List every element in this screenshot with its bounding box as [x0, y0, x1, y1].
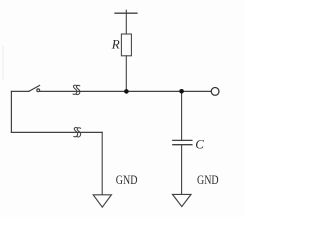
wire bottom horizontal — [11, 131, 102, 133]
svg-text:GND: GND — [197, 173, 219, 187]
ground symbol right — [173, 194, 192, 206]
wire down to left ground — [101, 132, 103, 194]
wire rail to resistor — [125, 13, 127, 34]
junction dot B — [179, 89, 184, 94]
svg-text:R: R — [111, 36, 120, 51]
svg-text:C: C — [195, 136, 204, 151]
terminal circle — [211, 88, 219, 96]
faint scan artifact left edge — [3, 46, 4, 80]
junction dot A — [124, 89, 129, 94]
wire capacitor to right ground — [181, 145, 183, 195]
break squiggle on bottom wire — [74, 128, 81, 137]
switch S left lead — [11, 90, 28, 92]
svg-text:GND: GND — [116, 173, 138, 187]
wire resistor to node — [125, 56, 127, 92]
switch blade — [29, 85, 40, 91]
wire left vertical — [10, 91, 12, 132]
ground symbol left — [93, 195, 111, 207]
resistor R — [121, 34, 131, 56]
switch contact circle — [37, 89, 40, 92]
break squiggle on top wire — [73, 85, 80, 94]
wire node B to capacitor — [181, 91, 183, 140]
main horizontal wire — [40, 90, 211, 92]
power rail bar — [115, 10, 137, 13]
capacitor C plates — [173, 140, 192, 144]
